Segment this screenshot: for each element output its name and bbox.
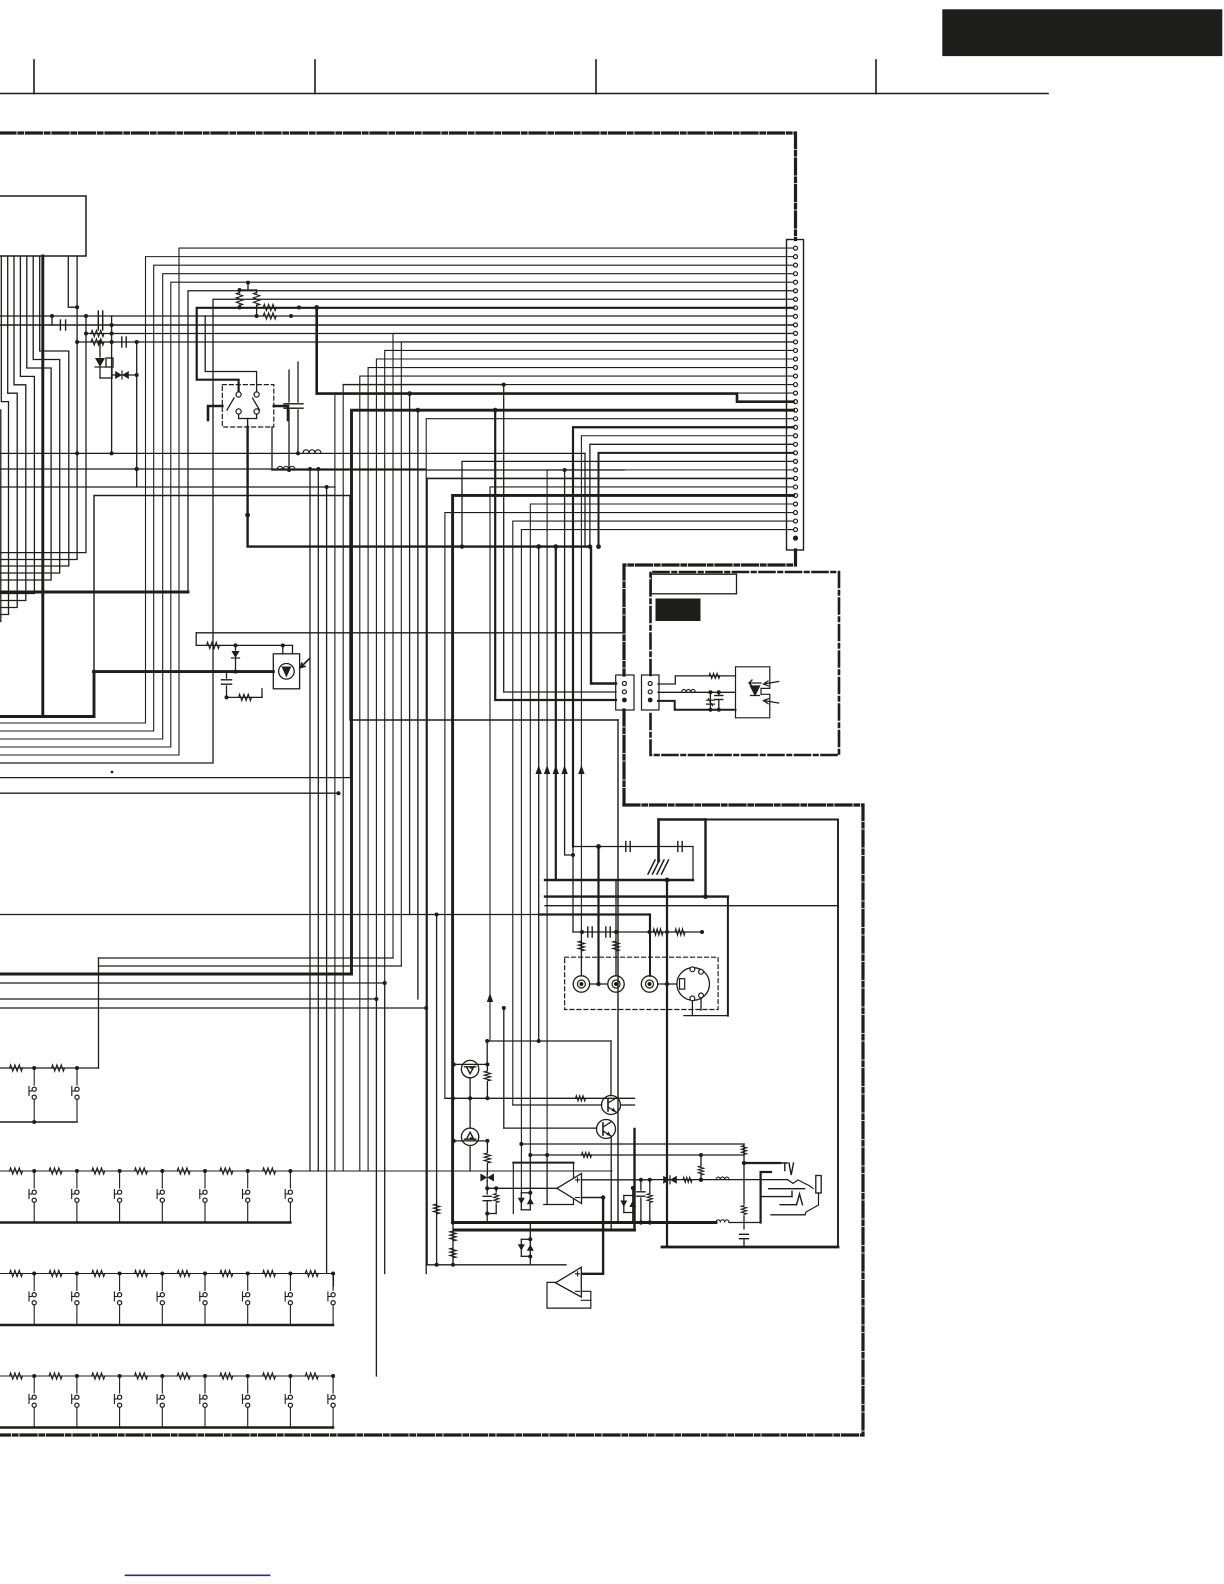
junction — [502, 1006, 506, 1010]
resistor rowC7 — [263, 1270, 276, 1276]
wire ground box top — [573, 846, 693, 848]
wire connector pin 7 — [0, 299, 794, 763]
transistor Q1 symbol — [465, 1067, 476, 1074]
resistor R201 — [709, 673, 720, 678]
push switch rowC7 — [289, 1274, 291, 1291]
push switch rowC2 — [75, 1293, 79, 1297]
push switch rowD5 — [200, 1398, 203, 1400]
connector CN201 pin 2 — [648, 690, 652, 694]
junction — [32, 1120, 36, 1124]
push switch rowC2 — [76, 1305, 78, 1325]
wire connector pin 9 — [205, 316, 256, 391]
junction — [32, 1066, 36, 1070]
wire — [100, 377, 112, 379]
resistor rowC — [10, 1270, 23, 1276]
wire thick — [649, 932, 651, 976]
connector CN101 pin 25 — [794, 451, 798, 455]
wire — [99, 342, 101, 357]
push switch rowD2 — [75, 1403, 79, 1407]
wire lower bus 2 — [545, 905, 838, 907]
wire thick to RCA3 — [540, 915, 650, 933]
junction — [246, 281, 250, 285]
push switch rowB4 — [160, 1190, 164, 1194]
inductor L102 — [277, 466, 295, 470]
junction — [451, 1263, 455, 1267]
push switch rowD3 — [119, 1408, 121, 1428]
wire — [486, 1041, 488, 1064]
zener diode D101 — [95, 366, 105, 368]
wire — [247, 283, 249, 290]
wire — [487, 1040, 611, 1042]
wire — [384, 983, 386, 1274]
connector CN102 pin 3 — [622, 698, 627, 703]
push switch rowC2 — [75, 1301, 79, 1305]
push switch rowC3 — [118, 1293, 122, 1297]
capacitor C114 — [605, 927, 607, 937]
wire rowB resistor line — [0, 1170, 612, 1172]
wire IC bus — [0, 256, 51, 580]
wire connector pin 28 — [427, 478, 794, 1264]
push switch rowC2 — [76, 1274, 78, 1291]
wire — [76, 256, 78, 453]
ground — [648, 860, 669, 874]
connector CN101 pin 31 — [794, 502, 798, 506]
diode pair D107 — [623, 1196, 625, 1213]
diode pair D107 diodes — [620, 1201, 636, 1208]
push switch rowB4 — [161, 1203, 163, 1223]
push switch rowD2 — [76, 1408, 78, 1428]
resistor rowD — [10, 1373, 23, 1379]
wire — [469, 1146, 471, 1172]
push switch rowD1 — [33, 1376, 35, 1393]
wire — [649, 1203, 651, 1223]
wire net p12 — [77, 341, 793, 343]
junction — [407, 391, 412, 396]
capacitor C111 — [629, 842, 631, 852]
arrowhead signal flow — [578, 765, 584, 774]
switch S101 contact — [254, 392, 259, 397]
capacitor C117 — [483, 1200, 491, 1202]
wire — [226, 686, 228, 697]
wire connector pin 12 — [401, 342, 793, 966]
transistor Q4 bar — [602, 1123, 604, 1135]
volume VR101 arrow — [301, 659, 310, 668]
wire — [112, 374, 137, 376]
junction — [596, 544, 601, 549]
triac U201 symbol — [749, 680, 761, 696]
wire — [495, 1204, 497, 1214]
junction — [708, 708, 712, 712]
resistor R127 — [698, 1166, 703, 1175]
junction — [135, 373, 139, 377]
resistor R105 — [91, 339, 104, 345]
wire connector pin 5 — [0, 282, 794, 747]
push switch rowC5 — [200, 1296, 203, 1298]
board outline dash-dot lower region — [0, 805, 863, 1435]
push switch rowB6 — [247, 1171, 249, 1188]
resistor R118 — [683, 1177, 692, 1182]
push switch SW2 — [76, 1068, 78, 1085]
connector CN101 pin 33 — [794, 519, 798, 523]
wire — [235, 659, 237, 672]
junction — [160, 1169, 164, 1173]
connector CN101 pin 14 — [794, 357, 798, 361]
diode pair D106 — [520, 1239, 522, 1256]
junction — [118, 1374, 122, 1378]
push switch rowD5 — [199, 1395, 201, 1404]
wire — [743, 1144, 745, 1160]
transistor Q3 c — [608, 1098, 616, 1103]
junction — [596, 982, 600, 986]
push switch rowD7 — [288, 1403, 292, 1407]
wire — [272, 469, 624, 471]
junction — [485, 1139, 489, 1143]
junction — [580, 930, 584, 934]
capacitor C106 — [102, 320, 104, 330]
wire — [226, 672, 228, 678]
push switch rowD7 — [289, 1408, 291, 1428]
wire — [572, 847, 574, 881]
push switch rowC3 — [114, 1296, 117, 1298]
op-amp U1 box left — [512, 1163, 514, 1214]
connector CN101 pin 16 — [794, 374, 798, 378]
wire IC bus — [0, 410, 1, 622]
capacitor C104 — [102, 311, 104, 321]
diode pair D106 — [521, 1255, 530, 1257]
title block tick — [595, 60, 597, 94]
junction — [468, 1096, 472, 1100]
op-amp U2 box — [547, 1282, 591, 1308]
push switch rowD1 — [33, 1408, 35, 1428]
wire — [111, 367, 113, 378]
wire IC bus — [0, 256, 17, 608]
wire row A resistor line — [0, 1067, 99, 1069]
resistor R104 — [91, 330, 104, 336]
wire enclosure top thick — [659, 818, 706, 820]
zener diode D101 — [95, 358, 105, 367]
junction — [528, 1191, 532, 1195]
junction — [648, 1220, 652, 1224]
resistor R107 — [253, 293, 259, 306]
transistor Q3 e — [608, 1107, 616, 1112]
title block rule — [0, 93, 1048, 95]
RCA jack J2 center — [614, 982, 618, 986]
wire — [425, 1008, 427, 1274]
title block tick — [875, 60, 877, 94]
wire — [743, 1163, 745, 1204]
wire net p11 — [86, 333, 794, 335]
wire RCA-DIN link — [658, 983, 677, 985]
junction — [665, 982, 669, 986]
wire thick lower bus — [545, 895, 728, 897]
wire — [771, 1214, 805, 1216]
push switch rowD7 — [284, 1395, 286, 1404]
board outline dash-dot top — [0, 133, 796, 240]
push switch rowB6 — [246, 1198, 250, 1202]
connector CN101 pin 24 — [794, 442, 798, 446]
jack J6 ring contact — [797, 1194, 803, 1205]
junction — [238, 306, 242, 310]
push switch rowB1 — [32, 1198, 36, 1202]
wire — [529, 1257, 531, 1265]
wire — [684, 1015, 728, 1017]
resistor R117 — [741, 1206, 746, 1215]
resistor rowD8 — [305, 1373, 318, 1379]
junction — [700, 930, 704, 934]
push switch rowB5 — [204, 1203, 206, 1223]
push switch rowD3 — [113, 1395, 115, 1404]
push switch rowD3 — [119, 1376, 121, 1393]
wire — [235, 645, 237, 650]
wire — [409, 394, 411, 915]
connector CN101 pin 18 — [794, 391, 798, 395]
wire jack feed line — [530, 1154, 744, 1156]
junction — [325, 485, 329, 489]
push switch rowC1 — [28, 1292, 30, 1301]
wire Q2 rail — [454, 1140, 488, 1142]
diode D104 — [663, 1176, 670, 1184]
wire IC bus — [0, 256, 26, 601]
wire AC pin2 net — [658, 691, 736, 693]
jack J5 tip — [780, 1163, 794, 1175]
resistor rowC2 — [49, 1270, 62, 1276]
junction — [234, 670, 238, 674]
wire rowD bottom — [0, 1426, 333, 1428]
push switch rowB2 — [71, 1190, 73, 1199]
wire — [632, 1188, 634, 1196]
resistor rowB5 — [177, 1168, 190, 1174]
wire — [504, 1127, 597, 1129]
connector CN102 pin 2 — [622, 690, 626, 694]
wire — [495, 1188, 497, 1192]
connector CN101 pin 8 — [794, 306, 798, 310]
DIN jack J4 — [677, 968, 710, 1001]
junction — [639, 1178, 643, 1182]
push switch rowD3 — [114, 1398, 117, 1400]
push switch SW2 — [72, 1090, 75, 1092]
resistor R109 — [263, 313, 276, 319]
wire — [309, 469, 311, 1171]
arrowhead signal flow — [553, 765, 559, 774]
wire — [51, 316, 53, 325]
push switch SW1 — [33, 1100, 35, 1122]
RCA jack J2 — [608, 976, 624, 992]
wire — [0, 1007, 426, 1009]
resistor rowC4 — [134, 1270, 147, 1276]
wire net B — [0, 486, 335, 488]
wire IC bus — [0, 256, 60, 573]
diode pair D106 — [521, 1238, 530, 1240]
wire connector pin 27 — [547, 470, 793, 1155]
resistor rowB3 — [92, 1168, 105, 1174]
push switch rowB5 — [204, 1171, 206, 1188]
resistor rowD3 — [92, 1373, 105, 1379]
wire IC bus — [0, 256, 9, 615]
junction — [297, 306, 301, 310]
DIN jack pin — [699, 969, 704, 974]
junction — [281, 643, 285, 647]
push switch rowC5 — [204, 1305, 206, 1325]
junction — [32, 1272, 36, 1276]
wire volume feed — [196, 632, 624, 634]
push switch rowD1 — [28, 1395, 30, 1404]
wire connector pin 4 — [0, 274, 794, 739]
resistor R116 — [741, 1146, 746, 1155]
junction — [451, 1220, 455, 1224]
RCA jack J1 inner — [577, 980, 585, 988]
connector CN101 pin 4 — [794, 272, 798, 276]
wire — [640, 1180, 642, 1190]
connector CN101 pin 22 — [794, 425, 798, 429]
junction — [296, 451, 300, 455]
push switch rowB4 — [161, 1171, 163, 1188]
wire IC bus — [0, 256, 34, 594]
capacitor C109 — [293, 403, 303, 405]
push switch rowB1 — [33, 1203, 35, 1223]
wire — [99, 965, 402, 967]
wire jack ring line — [769, 1188, 805, 1190]
capacitor C113 — [587, 927, 589, 937]
wire — [427, 1264, 566, 1266]
junction — [75, 1272, 79, 1276]
RCA jack J2 inner — [612, 980, 620, 988]
op-amp U1 minus — [576, 1197, 580, 1199]
junction — [742, 1161, 746, 1165]
DIN jack pin — [699, 993, 704, 998]
junction — [308, 467, 312, 471]
transistor Q4 — [597, 1120, 616, 1139]
wire — [486, 1082, 488, 1098]
wire thick exit — [0, 591, 188, 594]
wire — [718, 692, 720, 695]
junction — [563, 468, 567, 472]
push switch rowC1 — [32, 1293, 36, 1297]
push switch rowC8 — [332, 1305, 334, 1325]
push switch rowD5 — [203, 1403, 207, 1407]
switch S101 contact — [236, 392, 241, 397]
push switch rowD8 — [332, 1408, 334, 1428]
connector CN101 pin 5 — [794, 280, 798, 284]
wire connector pin 17 — [343, 385, 793, 1171]
push switch rowD8 — [328, 1398, 331, 1400]
resistor R115 — [613, 941, 619, 951]
op-amp U1 box top — [513, 1162, 573, 1164]
connector CN101 pin 10 — [794, 323, 798, 327]
junction — [451, 1139, 455, 1143]
push switch rowB6 — [247, 1203, 249, 1223]
push switch rowB5 — [203, 1190, 207, 1194]
junction — [699, 1153, 703, 1157]
wire — [282, 645, 284, 653]
wire — [529, 1223, 531, 1240]
junction — [435, 913, 439, 917]
wire thick to CN pin3 — [495, 410, 616, 700]
push switch rowC4 — [160, 1293, 164, 1297]
connector CN101 pin 28 — [794, 476, 798, 480]
junction — [717, 708, 721, 712]
inductor L201 — [682, 689, 696, 692]
capacitor C115 — [740, 1233, 749, 1235]
push switch rowC3 — [118, 1301, 122, 1305]
push switch rowD4 — [161, 1408, 163, 1428]
push switch rowC7 — [288, 1293, 292, 1297]
wire switch output thick — [248, 427, 616, 684]
resistor R2 — [52, 1065, 65, 1071]
junction — [110, 323, 114, 327]
op-amp U2 minus — [576, 1290, 580, 1292]
junction — [416, 408, 421, 413]
junction — [98, 340, 102, 344]
transistor Q3 — [602, 1096, 621, 1115]
wire — [452, 1223, 454, 1265]
connector CN101 pin 6 — [794, 289, 798, 293]
capacitor C105 — [59, 320, 61, 330]
connector CN101 pin 34 — [794, 528, 798, 532]
triac U201 gate arrows — [764, 681, 779, 704]
wire — [256, 414, 258, 418]
capacitor C110 — [222, 679, 232, 681]
connector CN101 pin 9 — [794, 314, 798, 318]
wire rowD resistor line — [0, 1375, 333, 1377]
resistor R114b — [578, 941, 584, 951]
connector CN101 pin 1 — [794, 246, 798, 250]
wire enclosure drop thick — [704, 820, 706, 897]
push switch rowC6 — [242, 1292, 244, 1301]
DIN jack pin — [690, 996, 695, 1001]
push switch rowB1 — [28, 1190, 30, 1199]
wire row A feed — [98, 958, 100, 1068]
junction — [424, 1006, 428, 1010]
junction — [289, 314, 293, 318]
wire connector pin 3 — [0, 265, 794, 731]
capacitor C107 — [125, 337, 127, 347]
wire — [247, 419, 249, 428]
junction — [528, 1255, 532, 1259]
junction — [246, 1169, 250, 1173]
wire — [565, 470, 573, 855]
push switch rowC3 — [113, 1292, 115, 1301]
wire net E — [0, 792, 339, 794]
junction — [708, 690, 712, 694]
op-amp U2 out stub — [581, 1291, 591, 1300]
junction — [246, 1374, 250, 1378]
push switch rowD6 — [242, 1395, 244, 1404]
wire — [343, 384, 504, 386]
junction — [331, 1272, 335, 1276]
wire — [68, 256, 77, 307]
RCA jack J3 center — [648, 982, 652, 986]
wire — [297, 410, 299, 453]
push switch rowC8 — [328, 1296, 331, 1298]
wire — [469, 1078, 471, 1128]
push switch rowD7 — [285, 1398, 288, 1400]
junction — [485, 1062, 489, 1066]
junction — [460, 544, 464, 548]
push switch rowC1 — [33, 1305, 35, 1325]
resistor R110 — [207, 642, 220, 648]
push switch rowD8 — [332, 1376, 334, 1393]
wire — [486, 1064, 488, 1070]
resistor rowC3 — [92, 1270, 105, 1276]
resistor R126 — [433, 1204, 439, 1214]
junction — [537, 1039, 541, 1043]
switch S101 contact — [236, 409, 241, 414]
push switch rowB6 — [242, 1190, 244, 1199]
wire connector pin 32 — [445, 513, 794, 1099]
wire — [0, 453, 77, 559]
wire AC pin3 net thick — [658, 701, 736, 710]
IC U101 block — [0, 196, 86, 256]
